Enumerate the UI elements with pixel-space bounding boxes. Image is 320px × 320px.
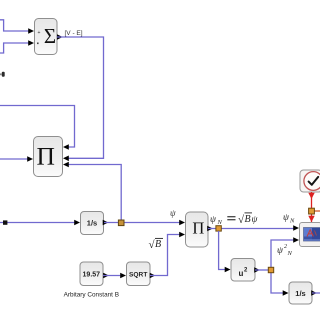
node J4 orange junction — [309, 208, 315, 214]
svg-text:N: N — [287, 250, 293, 257]
arrowhead product U2 input 2 — [63, 156, 69, 162]
scope block U10 — [300, 223, 320, 247]
arrowhead scope input 1 — [293, 225, 299, 231]
squarer U7 output arrowhead — [254, 267, 260, 273]
svg-text:Π: Π — [36, 142, 54, 171]
wire W11 product U4 to scope input 1 — [208, 228, 296, 230]
arrowhead product U4 input 1 — [179, 220, 185, 226]
label psiN near scope — [283, 213, 295, 225]
wire W2 into sum - input — [0, 43, 30, 53]
label psiN = sqrtB psi — [210, 213, 259, 226]
arrowhead red at scope top — [308, 216, 314, 222]
wire W13 squarer U7 to junction J3 — [255, 269, 271, 271]
arrowhead integrator U8 input — [283, 290, 289, 296]
svg-text:u: u — [239, 269, 244, 278]
wire W7 long feed line at left — [0, 222, 77, 224]
svg-text:Arbitary Constant B: Arbitary Constant B — [64, 291, 119, 298]
svg-text:[V - E]: [V - E] — [65, 30, 83, 37]
sum block U1 — [35, 19, 58, 55]
svg-text:Σ: Σ — [44, 24, 56, 48]
integrator block U8 1/s — [289, 282, 312, 304]
text fragment e at left edge — [2, 72, 5, 77]
svg-text:N: N — [217, 219, 223, 226]
node J2 orange junction — [216, 226, 221, 231]
wire W8 integrator U3 to product U4 input 1 — [104, 222, 182, 224]
integrator U3 output arrowhead — [103, 220, 109, 226]
arrowhead product U2 input 1 — [63, 144, 69, 150]
wire W5 from junction J1 up to product U2 input 3 — [66, 165, 121, 223]
product block U2 — [34, 137, 63, 177]
svg-text:1/s: 1/s — [295, 289, 305, 298]
wire W10 sqrt U6 to product U4 input 2 — [150, 235, 182, 276]
wire W14 junction J3 up to scope input 2 — [271, 240, 296, 270]
svg-text:ψ: ψ — [210, 215, 217, 225]
arrowhead product U4 input 2 — [179, 232, 185, 238]
sqrt block U6 — [127, 262, 151, 286]
node J3 orange junction — [268, 267, 273, 272]
constant block U5 19.57 — [80, 262, 103, 286]
wire W1 into sum + input — [0, 20, 30, 31]
svg-text:19.57: 19.57 — [83, 272, 101, 279]
svg-text:ψ: ψ — [277, 246, 284, 256]
arrowhead sum input 1 — [28, 28, 34, 34]
node black junction on W7 — [3, 220, 7, 224]
wire W9 constant U5 to sqrt U6 — [103, 275, 121, 277]
wire W16 integrator U8 to right edge — [312, 292, 320, 294]
constant U5 output arrowhead — [103, 273, 109, 279]
svg-text:Π: Π — [192, 218, 204, 237]
arrowhead sum input 2 — [28, 40, 34, 46]
product U4 output arrowhead — [207, 226, 213, 232]
squarer block U7 u^2 — [231, 259, 255, 282]
node J1 orange junction — [118, 220, 124, 226]
arrowhead product U2 left input — [27, 156, 33, 162]
svg-text:√: √ — [149, 239, 156, 251]
label psi squared N — [277, 244, 293, 257]
sqrt U6 output arrowhead — [150, 273, 156, 279]
arrowhead scope input 2 — [293, 237, 299, 243]
wire W4 from left edge to product U2 input 1 — [0, 106, 75, 148]
svg-text:1/s: 1/s — [87, 219, 97, 228]
arrowhead squarer U7 input — [225, 267, 231, 273]
product block U4 — [186, 212, 209, 247]
arrowhead integrator U3 input — [74, 220, 80, 226]
svg-text:B: B — [245, 214, 251, 225]
svg-text:+: + — [38, 30, 41, 36]
label sqrt B — [149, 238, 164, 251]
sum output arrowhead — [57, 34, 63, 40]
arrowhead red mid — [308, 193, 314, 199]
integrator block U3 1/s — [81, 212, 104, 235]
check block U9 — [300, 170, 320, 192]
svg-text:ψ: ψ — [283, 213, 290, 223]
svg-text:ψ: ψ — [252, 215, 259, 225]
wire W6 from left edge into product U2 left input — [0, 158, 28, 160]
arrowhead product U2 input 3 — [63, 162, 69, 168]
svg-text:SQRT: SQRT — [129, 271, 147, 278]
arrowhead sqrt U6 input — [120, 273, 126, 279]
svg-text:B: B — [155, 239, 161, 250]
wire W17 red line check U9 to scope — [311, 192, 313, 222]
wire W3 from sum to product U2 input 2 (via [V-E]) — [57, 37, 104, 158]
wire W15 junction J3 down to integrator U8 — [271, 270, 285, 293]
wire W18 orange stub to right edge — [313, 210, 320, 212]
wire W12 junction J2 down to squarer U7 — [219, 231, 227, 270]
integrator U8 output arrowhead — [311, 290, 317, 296]
svg-text:N: N — [289, 218, 295, 225]
svg-text:ψ: ψ — [170, 208, 176, 218]
